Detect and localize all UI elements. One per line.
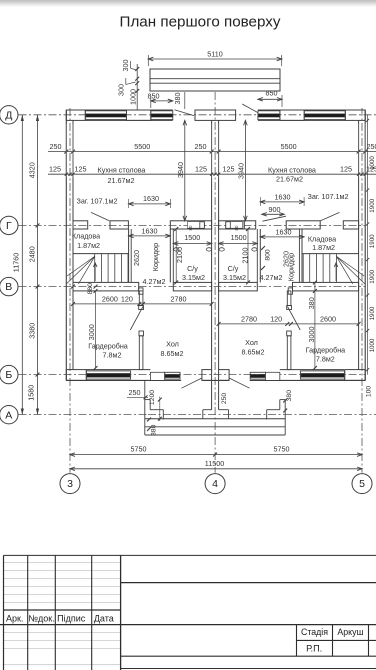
bottom wall segment left corner	[66, 370, 86, 381]
svg-text:Стадія: Стадія	[301, 627, 328, 637]
canopy dim ticks	[135, 67, 139, 71]
window W6 bottom (box)	[165, 372, 180, 379]
right dim chain line	[367, 115, 369, 375]
axis circle Г	[0, 216, 18, 234]
title block stage cells	[296, 625, 298, 657]
svg-text:850: 850	[266, 88, 278, 97]
dim 380/3000 right chain	[314, 282, 316, 368]
svg-text:Хол: Хол	[166, 339, 179, 348]
С/у east wall right unit	[256, 229, 258, 282]
svg-text:3000: 3000	[87, 324, 96, 340]
partition door swing left	[130, 307, 143, 331]
svg-text:2780: 2780	[171, 294, 187, 303]
row Г wall seg R2	[244, 221, 256, 229]
canopy step line 1	[150, 78, 280, 80]
stair right up-arrow	[335, 263, 337, 281]
top photo-edge shading	[0, 0, 376, 7]
svg-text:Дата: Дата	[94, 613, 114, 623]
axis line А right segment (dash-dot)	[284, 413, 376, 415]
svg-text:80: 80	[188, 225, 193, 230]
svg-text:С/у: С/у	[187, 264, 198, 273]
top wall segment right corner	[345, 110, 365, 120]
svg-text:Р.П.: Р.П.	[306, 644, 322, 654]
svg-text:Б: Б	[5, 369, 12, 381]
row В wall door post left	[139, 288, 143, 294]
dim row 250/5500 line	[48, 151, 376, 153]
axis circle 3	[60, 474, 80, 494]
axis line Д (horizontal dash-dot)	[19, 114, 376, 116]
svg-text:1500: 1500	[184, 233, 200, 242]
porch right end edge	[284, 400, 286, 435]
svg-text:5110: 5110	[207, 50, 222, 59]
svg-text:4: 4	[212, 478, 218, 490]
svg-text:250: 250	[50, 142, 62, 151]
dim row left 2600/120/2780 line	[73, 303, 212, 305]
axis circle Б	[0, 365, 18, 383]
svg-text:2620: 2620	[281, 251, 290, 267]
svg-text:3380: 3380	[28, 323, 37, 339]
svg-text:21.67м2: 21.67м2	[276, 174, 303, 183]
axis circle 5	[352, 474, 372, 494]
dim row 125/125 ticks	[65, 173, 68, 176]
center wall T-head	[195, 110, 236, 120]
bottom wall segment right corner	[345, 370, 366, 381]
dim 900 right	[262, 213, 284, 215]
row Г wall pier left	[73, 221, 88, 229]
svg-text:3000: 3000	[307, 327, 316, 343]
window W5 glazing	[87, 374, 130, 378]
axis circle Д	[0, 106, 18, 124]
svg-text:125: 125	[223, 165, 235, 174]
stair left fan lines	[67, 256, 95, 283]
row В wall left segment	[73, 282, 139, 291]
svg-text:4.27м2: 4.27м2	[260, 273, 283, 282]
svg-text:7.8м2: 7.8м2	[103, 350, 122, 359]
svg-text:План першого поверху: План першого поверху	[120, 14, 281, 31]
svg-text:Г: Г	[6, 220, 12, 232]
window W2 glazing	[151, 114, 172, 117]
svg-text:850: 850	[148, 91, 160, 100]
svg-text:3: 3	[67, 478, 73, 490]
dim 3940 right unit	[244, 120, 246, 220]
svg-text:900: 900	[269, 205, 281, 214]
row Г wall seg L2	[110, 221, 128, 229]
svg-text:800: 800	[265, 249, 272, 261]
svg-text:250: 250	[129, 388, 141, 397]
svg-text:Заг. 107.1м2: Заг. 107.1м2	[307, 192, 348, 201]
dim row extension lines	[65, 124, 67, 178]
row Г wall seg R1 (С/у front right)	[219, 221, 245, 229]
svg-text:4320: 4320	[28, 162, 37, 178]
svg-text:1580: 1580	[27, 385, 36, 401]
left dim line 11760	[21, 115, 23, 415]
svg-text:1200: 1200	[149, 390, 156, 405]
svg-text:С/у: С/у	[228, 264, 239, 273]
svg-text:8.65м2: 8.65м2	[242, 348, 265, 357]
svg-text:880: 880	[87, 283, 94, 295]
svg-text:Кладова: Кладова	[308, 235, 336, 244]
window W8 bottom (box)	[300, 371, 344, 379]
dim 11500 line	[70, 468, 362, 470]
svg-text:4.27м2: 4.27м2	[143, 277, 166, 286]
top exterior wall outer line	[66, 109, 173, 111]
bottom wall inner left	[86, 369, 150, 371]
window W7 bottom (box)	[250, 372, 265, 379]
svg-text:8.65м2: 8.65м2	[161, 349, 184, 358]
bottom wall niche right	[266, 372, 280, 380]
svg-text:80: 80	[234, 225, 239, 230]
С/у door gap right	[226, 222, 243, 229]
svg-text:380: 380	[173, 93, 182, 105]
axis line 3 (vertical dash-dot)	[69, 108, 71, 473]
svg-text:3940: 3940	[176, 162, 185, 178]
svg-text:5: 5	[359, 478, 365, 490]
dim 1630 lower left	[129, 235, 171, 237]
partition left unit lower	[139, 336, 143, 370]
svg-text:2620: 2620	[132, 250, 141, 266]
svg-text:2480: 2480	[28, 246, 37, 262]
window W8 glazing	[301, 374, 344, 378]
center party wall	[211, 120, 213, 369]
svg-text:3.15м2: 3.15м2	[182, 273, 205, 282]
svg-text:5750: 5750	[131, 445, 147, 454]
svg-text:125: 125	[49, 165, 61, 174]
left exterior wall	[65, 110, 67, 380]
svg-text:1.87м2: 1.87м2	[77, 241, 100, 250]
row В wall С/у segment left	[173, 282, 211, 291]
svg-text:5500: 5500	[134, 142, 150, 151]
dim 1500 left	[173, 243, 211, 245]
svg-text:125: 125	[340, 165, 352, 174]
svg-text:11760: 11760	[11, 253, 20, 272]
svg-text:300: 300	[116, 84, 125, 96]
svg-text:1630: 1630	[275, 192, 291, 201]
dim 1500 right	[219, 243, 258, 245]
svg-text:Гардеробна: Гардеробна	[306, 346, 346, 355]
dim 5750 line	[70, 454, 362, 456]
svg-text:2600: 2600	[320, 314, 336, 323]
svg-text:7.8м2: 7.8м2	[316, 355, 335, 364]
svg-text:Хол: Хол	[245, 338, 258, 347]
svg-text:2600: 2600	[102, 294, 118, 303]
door post left partition	[139, 306, 144, 310]
dim 850 right line	[258, 98, 282, 100]
row В wall С/у segment right	[219, 282, 258, 291]
partition left unit upper	[139, 291, 143, 306]
axis line А (horizontal dash-dot)	[19, 413, 149, 415]
title block grid	[4, 554, 376, 556]
svg-text:Гардеробна: Гардеробна	[88, 341, 128, 350]
entrance door opening left pier	[202, 370, 212, 381]
svg-text:1630: 1630	[276, 227, 292, 236]
row В wall door post right	[288, 288, 292, 294]
svg-text:380: 380	[286, 390, 293, 402]
svg-text:1900: 1900	[369, 234, 376, 248]
svg-text:250: 250	[221, 393, 228, 405]
svg-text:1900: 1900	[369, 269, 376, 283]
dim 850 left line	[151, 100, 173, 102]
С/у door leaf right	[226, 222, 231, 229]
porch left end edge	[144, 380, 146, 435]
dim 1630 lower right	[260, 236, 304, 238]
С/у fixture symbols	[174, 248, 179, 251]
svg-text:Підпис: Підпис	[57, 613, 86, 623]
dim 3940 left unit	[184, 120, 186, 220]
svg-text:5750: 5750	[274, 445, 290, 454]
svg-text:380: 380	[150, 424, 157, 436]
dim row 125/125 line	[48, 173, 376, 175]
svg-text:1500: 1500	[231, 233, 247, 242]
dim 1630 upper left	[129, 203, 171, 205]
кладова door swing left	[91, 212, 109, 220]
corridor door swing right	[263, 216, 287, 221]
window W2 top wall (box)	[151, 111, 173, 120]
svg-text:250: 250	[195, 142, 207, 151]
svg-text:1000: 1000	[369, 338, 376, 352]
axis circle А	[0, 406, 18, 424]
svg-text:1900: 1900	[369, 306, 376, 320]
partition door swing right	[288, 307, 301, 331]
door post right partition lower	[287, 331, 292, 336]
left dim chain ticks	[36, 223, 40, 227]
door post right partition	[287, 306, 292, 310]
axis line 4 (vertical dash-dot)	[214, 92, 216, 473]
window W6 glazing	[165, 375, 179, 378]
axis line Б (horizontal dash-dot)	[19, 374, 366, 376]
partition right unit lower	[287, 336, 291, 370]
svg-text:Д: Д	[5, 109, 12, 121]
svg-text:Коридор: Коридор	[151, 243, 160, 271]
кладова west wall right unit	[298, 229, 300, 282]
svg-text:120: 120	[270, 314, 282, 323]
right exterior wall	[364, 110, 366, 380]
window W3 top wall (box)	[258, 111, 280, 120]
dim 1630 upper right	[260, 201, 304, 203]
canopy left dim chain line	[136, 64, 138, 110]
svg-text:Аркуш: Аркуш	[337, 627, 363, 637]
left dim line chain	[37, 115, 39, 415]
svg-text:125: 125	[75, 165, 87, 174]
svg-text:1630: 1630	[143, 194, 159, 203]
С/у door leaf left	[200, 222, 205, 229]
canopy step line 2	[150, 82, 280, 84]
svg-text:300: 300	[121, 60, 130, 72]
pier between W3 W4	[280, 110, 304, 120]
stair flight right unit treads	[302, 254, 304, 283]
porch right step profile	[280, 399, 285, 401]
svg-text:3940: 3940	[237, 163, 246, 179]
axis line Г (horizontal dash-dot)	[19, 224, 366, 226]
svg-text:380: 380	[307, 297, 316, 309]
dim row right 2780/120/2600 line	[219, 323, 359, 325]
stair right fan lines	[337, 256, 365, 283]
party wall stem below Б	[211, 380, 213, 409]
dim row 250/5500 ticks	[64, 150, 68, 154]
bottom wall inner right	[280, 369, 344, 371]
entrance door swing left	[181, 378, 202, 388]
window W4 glazing	[305, 114, 345, 117]
axis line 5 (vertical dash-dot)	[361, 108, 363, 473]
svg-text:А: А	[5, 409, 12, 421]
svg-text:№док.: №док.	[28, 613, 54, 623]
top wall segment A (left corner)	[66, 110, 85, 120]
window W1 glazing	[86, 114, 126, 117]
stair flight left unit treads	[94, 254, 96, 283]
door post left partition lower	[139, 331, 144, 336]
row Г wall seg L3 (С/у front)	[170, 221, 211, 229]
axis circle В	[0, 277, 18, 295]
window W4 top wall (box)	[304, 111, 345, 120]
entrance door swing right	[229, 378, 250, 388]
bottom exterior wall outer line	[66, 379, 181, 381]
porch left step profile	[145, 399, 150, 401]
svg-text:1630: 1630	[142, 226, 158, 235]
balcony door swing right	[242, 104, 258, 113]
svg-text:1900: 1900	[369, 198, 376, 212]
axis circle 4	[205, 474, 225, 494]
svg-text:11500: 11500	[205, 459, 224, 468]
svg-text:В: В	[5, 281, 12, 293]
window W1 top wall (box)	[85, 111, 126, 120]
кладова bottom line right	[302, 253, 359, 255]
bottom wall niche left	[150, 372, 164, 380]
partition right unit upper	[287, 291, 291, 306]
top wall inner line left	[85, 119, 173, 121]
С/у west wall left unit	[169, 229, 171, 282]
svg-text:1.87м2: 1.87м2	[312, 243, 335, 252]
svg-text:125: 125	[195, 165, 207, 174]
porch center base left	[202, 410, 204, 419]
pier between W1 W2	[127, 110, 151, 120]
porch slab band	[145, 418, 285, 420]
svg-text:120: 120	[121, 294, 133, 303]
top wall inner line right	[258, 119, 345, 121]
svg-text:5500: 5500	[281, 142, 297, 151]
С/у door gap left	[188, 222, 205, 229]
svg-text:100: 100	[366, 386, 373, 398]
window W7 glazing	[251, 375, 265, 378]
canopy outline (top porch slab)	[150, 69, 280, 91]
row Г wall pier right	[343, 221, 358, 229]
кладова east wall left unit	[128, 229, 130, 282]
porch center base right	[219, 409, 229, 411]
window W5 bottom (box)	[86, 371, 130, 379]
dim 5110 line	[148, 58, 281, 60]
svg-text:Кухня столова: Кухня столова	[98, 165, 146, 174]
balcony door swing left	[175, 110, 195, 116]
svg-text:Заг. 107.1м2: Заг. 107.1м2	[76, 196, 117, 205]
svg-text:1000: 1000	[128, 89, 137, 105]
svg-text:Кухня столова: Кухня столова	[268, 165, 316, 174]
entrance door opening right pier	[219, 370, 230, 381]
кладова bottom line left	[73, 253, 129, 255]
svg-text:1000: 1000	[369, 156, 376, 170]
кладова door swing right	[321, 212, 340, 220]
window W3 glazing	[259, 114, 280, 117]
stair left up-arrow	[94, 263, 96, 281]
row В wall right segment	[293, 282, 359, 291]
svg-text:Кладова: Кладова	[72, 232, 100, 241]
row Г wall seg R3	[286, 221, 320, 229]
svg-text:21.67м2: 21.67м2	[108, 176, 135, 185]
axis line В (horizontal dash-dot)	[19, 286, 366, 288]
svg-text:3.15м2: 3.15м2	[223, 273, 246, 282]
svg-text:Арк.: Арк.	[6, 613, 23, 623]
svg-text:2780: 2780	[241, 314, 257, 323]
